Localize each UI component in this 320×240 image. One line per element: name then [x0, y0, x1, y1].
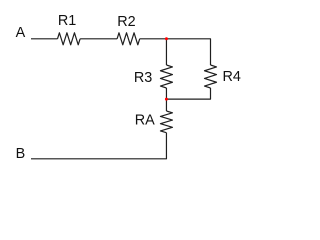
svg-text:R4: R4 [223, 69, 241, 85]
svg-text:B: B [16, 146, 26, 162]
wire node 1 to R3 top [165, 39, 167, 65]
wire R4 bottom to node 2 [166, 88, 210, 99]
wire node 2 to RA top [165, 99, 167, 111]
resistor R1 [58, 13, 81, 45]
wire RA bottom to B [31, 133, 166, 159]
svg-text:A: A [16, 25, 26, 41]
svg-text:RA: RA [135, 112, 155, 128]
svg-text:R3: R3 [134, 70, 152, 86]
junction node 2 [165, 98, 168, 101]
svg-text:R1: R1 [58, 13, 76, 29]
resistor R2 [117, 14, 140, 45]
wire R2 to node 1 [140, 38, 167, 40]
wire R1 to R2 [80, 38, 117, 40]
resistor R4 [205, 65, 241, 88]
wire node 1 to R4 top [166, 39, 210, 65]
resistor R3 [134, 65, 173, 88]
svg-text:R2: R2 [117, 14, 135, 30]
junction node 1 [165, 37, 168, 40]
resistor RA [135, 111, 173, 133]
wire A to R1 [31, 38, 58, 40]
wire R3 bottom to node 2 [165, 88, 167, 99]
